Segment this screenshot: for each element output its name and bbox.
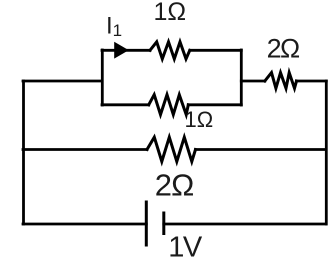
- svg-text:2Ω: 2Ω: [267, 34, 300, 64]
- wire left vertical: [22, 81, 25, 224]
- wire right vertical: [325, 81, 328, 224]
- wire R3 to right corner: [297, 80, 327, 83]
- wire exit from box to R3: [241, 80, 264, 83]
- battery B1 short plate: [162, 213, 165, 234]
- wire bottom right segment: [164, 223, 326, 226]
- wire middle left segment: [23, 148, 147, 151]
- wire entry top (left wire to parallel box): [23, 80, 102, 83]
- wire bottom left segment: [23, 223, 146, 226]
- node left side of parallel box: [101, 50, 104, 105]
- resistor R1 1ohm (top branch): [150, 42, 190, 59]
- battery B1 long plate: [145, 202, 148, 245]
- svg-text:2Ω: 2Ω: [155, 168, 194, 203]
- svg-text:1V: 1V: [168, 232, 203, 264]
- node right side of parallel box: [240, 50, 243, 105]
- svg-text:1Ω: 1Ω: [185, 107, 214, 132]
- wire bottom branch left segment: [102, 103, 149, 106]
- wire top branch right segment: [190, 49, 242, 52]
- wire bottom branch right segment: [188, 103, 241, 106]
- wire top branch left segment: [102, 49, 150, 52]
- svg-text:I1: I1: [106, 13, 122, 41]
- arrow current direction I1: [114, 42, 129, 59]
- wire middle right segment: [196, 148, 327, 151]
- resistor R3 2ohm (right): [265, 73, 297, 89]
- resistor R4 2ohm (middle): [147, 137, 196, 161]
- resistor R2 1ohm (bottom branch): [149, 95, 189, 115]
- svg-text:1Ω: 1Ω: [154, 0, 187, 26]
